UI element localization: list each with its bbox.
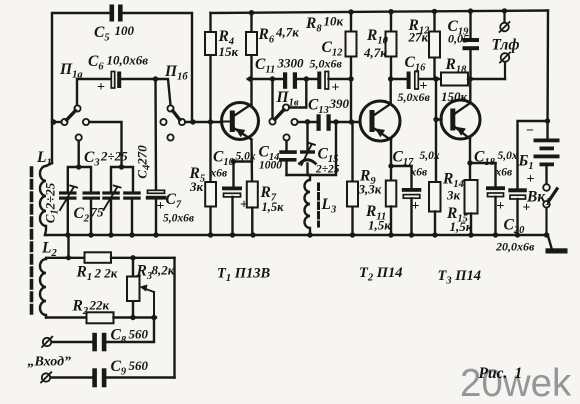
svg-text:75: 75 [91,205,105,220]
svg-text:х6в: х6в [410,167,428,179]
wire T3 collector riser [469,79,471,103]
battery Б1 [534,139,560,167]
capacitor C9 [51,368,175,387]
inductor L1 [40,163,52,235]
switch П1в [269,104,297,140]
capacitor C8 [52,318,155,352]
resistor R9 [347,122,358,235]
svg-text:5,0х: 5,0х [420,150,440,162]
capacitor C15 (trimmer) [300,119,316,175]
svg-text:+: + [157,199,165,214]
svg-text:х6в: х6в [495,167,513,179]
wire C6 left lead [77,79,112,106]
capacitor C18 (electrolytic) [486,163,505,235]
wire C6 right lead to П1б [121,79,170,105]
svg-text:15к: 15к [219,44,239,59]
wire T1 emitter [231,140,252,182]
wire R18 right to T3 collector node and Тлф [468,76,505,81]
ground rail junctions [65,232,549,237]
inductor L2 [40,235,85,318]
svg-text:+: + [497,199,505,214]
svg-text:1,5к: 1,5к [368,218,391,233]
svg-text:х6в: х6в [210,168,228,180]
power rail (negative supply, top) [211,11,549,14]
svg-text:22к: 22к [89,298,110,313]
svg-text:3к: 3к [189,179,204,194]
capacitor C17 (electrolytic) [402,166,422,235]
capacitor C10 (electrolytic) [222,162,242,236]
resistor R2 [46,312,157,323]
wire П1в right contact to C13 [298,121,317,123]
svg-text:8,2к: 8,2к [152,263,175,278]
svg-text:Т2 П14: Т2 П14 [359,265,403,284]
svg-text:3к: 3к [446,188,461,203]
svg-text:2÷25: 2÷25 [100,149,128,164]
capacitor C4 [123,191,141,235]
svg-text:0,05: 0,05 [448,32,469,46]
terminal Тлф (headphones) [500,11,511,79]
transistor T2 (П14) [360,101,400,141]
svg-text:5,0х: 5,0х [498,150,518,162]
svg-text:Т1 П13В: Т1 П13В [217,266,271,285]
resistor R4 [205,13,216,122]
svg-text:1000: 1000 [259,160,282,172]
svg-text:2÷25: 2÷25 [315,164,340,176]
wire C5 bridge net (top left rail) [52,13,192,163]
wire T3 emitter [467,139,495,180]
svg-text:27к: 27к [408,30,429,45]
wire T1 base net [185,119,221,124]
resistor R12 [429,11,440,79]
svg-text:4,7к: 4,7к [363,45,387,60]
svg-text:2 2к: 2 2к [94,266,118,281]
svg-text:Т3 П14: Т3 П14 [438,268,482,287]
svg-text:+: + [420,79,428,94]
wire C7 feed [154,79,157,191]
svg-text:„Вход”: „Вход” [28,355,72,370]
resistor R3 (potentiometer) [127,255,154,317]
svg-text:Тлф: Тлф [492,37,520,54]
svg-text:150к: 150к [441,89,468,104]
node L1 top junction [51,119,62,125]
wire C1C2 top rail [68,164,91,191]
resistor R6 [246,13,257,79]
resistor R5 [205,122,216,235]
wire T2 collector riser [390,79,392,104]
capacitor C5 [110,5,123,22]
svg-text:+: + [97,80,105,95]
wire C3C4 top rail [111,164,133,191]
wire C12 to T2 base [329,76,354,122]
svg-text:10к: 10к [324,14,344,29]
wire C11-C12 node [297,76,317,81]
wire battery to switch [545,166,547,184]
wire П1а bottom contact to C1C2 rail [77,141,79,167]
svg-text:4,7к: 4,7к [275,25,299,40]
svg-text:390: 390 [329,96,350,111]
resistor R1 [85,252,175,262]
switch П1а [61,105,89,140]
svg-text:−: − [526,124,534,139]
wire П1в top contact to C11C12 node [289,79,306,108]
capacitor C7 (electrolytic) [146,190,167,235]
capacitor C20 (electrolytic filter) [508,121,547,235]
wire T2 emitter [388,140,411,181]
capacitor C6 [111,72,121,89]
inductor L3 [305,175,310,235]
ground rail (common + rail) [45,234,548,236]
resistor R14 [429,182,441,235]
svg-text:560: 560 [129,358,149,373]
svg-text:+: + [240,198,248,213]
wire П1в bottom contact to C14 [285,141,287,151]
ground symbol [546,236,568,254]
resistor R15 [465,180,478,235]
capacitor C1 (trimmer) [59,186,77,236]
transistor T1 (П13В) [222,103,259,140]
node C6/C7 junction [153,76,158,81]
ferrite rod core (dashed) [30,168,34,316]
L3 core (dashed) [317,184,320,226]
svg-text:Рис.1: Рис.1 [479,365,523,382]
svg-text:10,0х6в: 10,0х6в [107,53,149,68]
switch Вк1 [543,184,557,235]
wire IF tank bottom [287,122,337,175]
svg-text:1,5к: 1,5к [262,200,285,214]
capacitor C3 (trimmer) [102,186,120,236]
resistor R8 [346,12,357,79]
wire T1 collector node [248,76,283,81]
switch П1б [160,105,185,140]
capacitor C14 [279,150,297,175]
resistor R10 [386,12,397,79]
wire input coupling riser [173,258,175,378]
svg-text:3300: 3300 [277,56,305,71]
capacitor C2 [83,191,101,235]
wire П1в feed from collector node [271,79,273,118]
capacitor C11 [283,72,297,89]
svg-text:5,0х6в: 5,0х6в [163,213,194,225]
svg-text:+: + [523,201,531,216]
resistor R11 [386,181,397,236]
capacitor C19 [463,11,480,79]
svg-text:5,0х6в: 5,0х6в [310,57,343,71]
plus/minus polarity marks [97,79,535,216]
svg-text:5,0х: 5,0х [236,151,256,163]
capacitor C16 (electrolytic) [391,72,441,90]
power rail junctions [249,8,507,15]
node T3 base [433,76,438,81]
svg-text:+: + [527,172,535,187]
wire T2 base net [331,119,360,124]
terminal Вход upper [42,337,52,347]
wire battery feed from rail [545,11,550,139]
resistor R7 [247,182,258,236]
wire П1а right contact to C3C4 rail [89,122,121,167]
capacitor C12 (electrolytic) [317,72,328,90]
svg-text:3,3к: 3,3к [358,182,382,197]
resistor R18 [441,73,468,86]
svg-text:20,0х6в: 20,0х6в [495,240,535,254]
svg-text:100: 100 [115,23,135,38]
wire T1 collector riser [250,79,252,104]
wire T3 base column [433,79,441,182]
node T2 collector [388,76,393,81]
svg-text:1,5к: 1,5к [450,219,473,234]
capacitor C13 [317,114,331,131]
svg-text:560: 560 [129,327,149,342]
transistor T3 (П14) [441,100,480,139]
svg-text:+: + [412,199,420,214]
terminal Вход lower [41,372,51,382]
svg-text:+: + [332,81,340,96]
